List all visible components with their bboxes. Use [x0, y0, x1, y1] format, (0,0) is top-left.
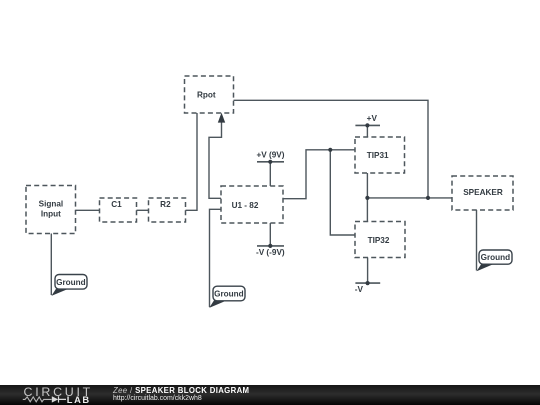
arrowhead into Rpot [218, 113, 225, 123]
junction node B [426, 196, 430, 200]
svg-text:R2: R2 [160, 200, 171, 209]
junction dot -V [366, 281, 370, 285]
svg-text:C1: C1 [111, 200, 122, 209]
ground flag at SPEAKER [477, 250, 512, 271]
svg-text:Ground: Ground [214, 290, 244, 299]
logo diode [52, 396, 58, 402]
block Signal Input [26, 186, 76, 234]
ground flag at U1 [209, 286, 245, 308]
svg-text:Ground: Ground [56, 278, 86, 287]
wire +V supply to TIP31 [366, 125, 368, 137]
svg-text:+V: +V [367, 114, 378, 123]
wire U1 to ground flag [210, 209, 222, 307]
transistor TIP31 [355, 137, 405, 173]
wire +V (9V) supply to U1 [269, 162, 271, 186]
block SPEAKER [452, 176, 513, 210]
svg-text:-V (-9V): -V (-9V) [256, 248, 285, 257]
logo resistor squiggle [23, 397, 52, 402]
wire TIP31 to TIP32 [366, 173, 368, 222]
capacitor C1 [100, 198, 137, 222]
label Signal Input [39, 200, 64, 219]
svg-text:TIP31: TIP31 [367, 151, 389, 160]
wire U1 to -V (-9V) supply [269, 223, 271, 246]
resistor R2 [149, 198, 186, 222]
wire SPEAKER to ground flag [476, 210, 478, 271]
bar -V (-9V) terminal [257, 245, 284, 247]
svg-text:LAB: LAB [67, 395, 91, 405]
wire R2 to Rpot bottom [186, 113, 198, 210]
junction dot -V (-9V) [268, 244, 272, 248]
svg-text:Rpot: Rpot [197, 90, 216, 99]
svg-text:Zee / SPEAKER BLOCK DIAGRAM: Zee / SPEAKER BLOCK DIAGRAM [112, 386, 249, 395]
bar +V (9V) terminal [257, 161, 284, 163]
wire Signal Input to C1 [76, 209, 100, 211]
wire node C to SPEAKER [367, 197, 452, 199]
wire Rpot output to node B [234, 100, 429, 198]
junction node A [328, 148, 332, 152]
bar -V terminal [355, 282, 380, 284]
svg-text:+V (9V): +V (9V) [257, 151, 285, 160]
wire U1 input from Rpot wiper (arrow) [209, 122, 222, 199]
svg-text:Ground: Ground [481, 253, 511, 262]
op-amp U1 [221, 186, 283, 223]
ground flag at Signal Input [51, 275, 87, 296]
svg-text:http://circuitlab.com/ckk2wh8: http://circuitlab.com/ckk2wh8 [113, 395, 202, 402]
svg-text:TIP32: TIP32 [368, 236, 390, 245]
transistor TIP32 [355, 222, 405, 258]
svg-text:SPEAKER: SPEAKER [463, 188, 503, 197]
wire Signal Input to ground flag [50, 234, 52, 296]
svg-text:-V: -V [355, 285, 364, 294]
junction dot +V [365, 123, 369, 127]
junction node C [365, 196, 369, 200]
potentiometer Rpot [185, 76, 234, 113]
wire TIP32 to -V supply [367, 258, 369, 284]
wire U1 output to TIP31 [283, 150, 355, 199]
bar +V terminal [355, 124, 380, 126]
svg-text:Signal: Signal [39, 200, 64, 209]
wire C1 to R2 [137, 209, 149, 211]
svg-text:Input: Input [41, 209, 61, 218]
svg-text:U1 - 82: U1 - 82 [232, 201, 259, 210]
junction dot +V (9V) [268, 160, 272, 164]
wire node A to TIP32 [330, 150, 355, 235]
